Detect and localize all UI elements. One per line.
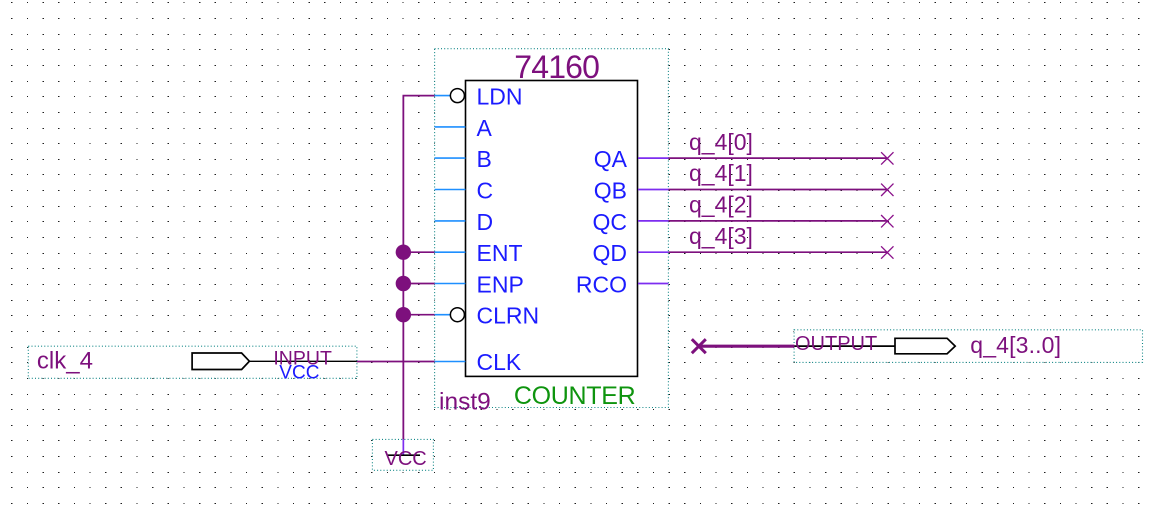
- node dangling marker x on net q_4[1]: [881, 184, 893, 196]
- wire pin stub RCO: [638, 283, 668, 285]
- wire net q_4[0]: [668, 157, 887, 159]
- svg-text:inst9: inst9: [439, 388, 491, 415]
- inversion bubble CLRN: [450, 308, 464, 322]
- svg-text:clk_4: clk_4: [37, 348, 93, 375]
- wire CLK net from input pin: [357, 361, 435, 363]
- svg-text:q_4[2]: q_4[2]: [689, 192, 753, 218]
- wire net q_4[1]: [668, 189, 887, 191]
- wire pin stub QA: [638, 157, 668, 159]
- svg-text:COUNTER: COUNTER: [514, 382, 636, 410]
- wire pin stub ENP: [435, 283, 466, 285]
- node dangling marker x on net q_4[2]: [881, 215, 893, 227]
- svg-text:A: A: [477, 115, 493, 141]
- wire input pin black stub: [249, 360, 357, 362]
- node dangling marker X on bus net: [692, 339, 706, 353]
- wire pin stub D: [435, 220, 466, 222]
- wire pin stub of VCC power symbol: [402, 439, 404, 455]
- inversion bubble LDN: [450, 89, 464, 103]
- wire LDN net segment: [403, 95, 435, 97]
- counter symbol inst9 (74160) body rectangle: [466, 81, 638, 377]
- svg-text:CLRN: CLRN: [477, 303, 540, 329]
- svg-text:RCO: RCO: [576, 271, 627, 297]
- wire pin stub C: [435, 189, 466, 191]
- svg-text:q_4[0]: q_4[0]: [689, 129, 753, 155]
- wire pin stub ENT: [435, 251, 466, 253]
- svg-text:QB: QB: [594, 177, 627, 203]
- junction at CLRN: [396, 307, 411, 322]
- input pin clk_4 selection boundary: [28, 346, 357, 378]
- input pin clk_4 arrow shape: [192, 353, 249, 370]
- wire pin stub CLRN: [435, 314, 451, 316]
- wire pin stub LDN: [435, 95, 451, 97]
- output pin q_4[3..0] selection boundary: [794, 330, 1142, 363]
- svg-text:QC: QC: [593, 209, 628, 235]
- svg-text:C: C: [477, 177, 494, 203]
- wire output pin black stub: [794, 345, 895, 347]
- wire net q_4[2]: [668, 220, 887, 222]
- wire ENP net segment: [403, 283, 434, 285]
- svg-text:ENP: ENP: [477, 271, 524, 297]
- node dangling marker x on net q_4[3]: [881, 246, 893, 258]
- svg-text:VCC: VCC: [385, 448, 427, 470]
- junction at ENT: [396, 245, 411, 260]
- wire pin stub B: [435, 157, 466, 159]
- svg-text:VCC: VCC: [279, 363, 319, 384]
- counter symbol inst9 (74160) selection boundary: [435, 49, 669, 408]
- wire pin stub A: [435, 126, 466, 128]
- wire vertical VCC net: [402, 96, 404, 440]
- power symbol VCC selection boundary: [372, 439, 433, 470]
- svg-text:CLK: CLK: [477, 349, 522, 375]
- svg-text:q_4[1]: q_4[1]: [689, 160, 753, 186]
- svg-text:QD: QD: [593, 240, 628, 266]
- power symbol VCC bar: [387, 454, 420, 456]
- svg-text:D: D: [477, 209, 494, 235]
- svg-text:ENT: ENT: [477, 240, 523, 266]
- wire ENT net segment: [403, 251, 434, 253]
- svg-text:B: B: [477, 146, 492, 172]
- wire bus net q_4[3..0]: [699, 345, 795, 348]
- wire pin stub QC: [638, 220, 668, 222]
- svg-text:LDN: LDN: [477, 84, 523, 110]
- wire pin stub CLK: [435, 361, 466, 363]
- svg-text:74160: 74160: [514, 49, 599, 85]
- output pin q_4[3..0] arrow shape: [895, 338, 955, 354]
- wire CLRN net segment: [403, 314, 434, 316]
- svg-text:OUTPUT: OUTPUT: [795, 333, 877, 355]
- svg-text:q_4[3..0]: q_4[3..0]: [970, 332, 1061, 358]
- wire pin stub QB: [638, 189, 668, 191]
- node dangling marker x on net q_4[0]: [881, 152, 893, 164]
- wire net q_4[3]: [668, 251, 887, 253]
- wire pin stub QD: [638, 251, 668, 253]
- junction at ENP: [396, 276, 411, 291]
- svg-text:QA: QA: [594, 146, 628, 172]
- svg-text:q_4[3]: q_4[3]: [689, 223, 753, 249]
